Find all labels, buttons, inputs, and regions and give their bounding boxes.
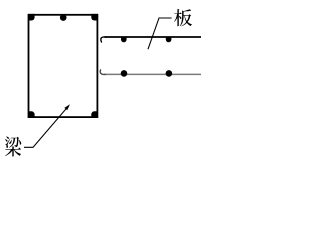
- leader line to beam label: [24, 108, 67, 147]
- slab top bar dot 2: [166, 37, 172, 42]
- slab top bar dot 1: [121, 37, 127, 42]
- rebar dot bottom-left: [28, 111, 35, 118]
- slab bottom bar: [105, 73, 202, 75]
- label 梁 (beam): [5, 137, 21, 157]
- slab bottom bar hook: [100, 70, 105, 75]
- rebar dot top-middle: [60, 14, 67, 21]
- rebar dot bottom-right: [91, 111, 98, 118]
- label 板 (slab): [174, 9, 192, 26]
- slab top bar: [105, 36, 202, 38]
- rebar dot top-right: [91, 14, 98, 21]
- slab bottom bar dot 2: [166, 70, 173, 77]
- slab top bar hook: [101, 37, 106, 42]
- rebar dot top-left: [28, 14, 35, 21]
- beam outline (stirrup): [29, 15, 98, 117]
- slab bottom bar dot 1: [121, 70, 128, 77]
- arrowhead of beam leader: [64, 104, 70, 110]
- leader line to slab label: [148, 18, 172, 49]
